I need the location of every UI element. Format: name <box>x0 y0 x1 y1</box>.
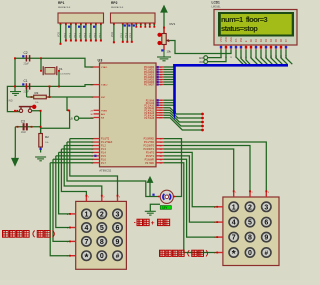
svg-text:P0.7/AD7: P0.7/AD7 <box>144 84 155 87</box>
svg-text:RS: RS <box>234 38 238 42</box>
svg-text:P3.7/RD: P3.7/RD <box>145 163 154 165</box>
svg-text:5: 5 <box>100 225 104 232</box>
svg-text:P0.6: P0.6 <box>94 32 96 37</box>
svg-text:9: 9 <box>116 239 120 246</box>
svg-text:D5: D5 <box>274 38 278 42</box>
svg-text:P3.1/TXD: P3.1/TXD <box>144 142 154 144</box>
svg-text:num=1 floor=3: num=1 floor=3 <box>221 15 267 24</box>
svg-text:P0.3: P0.3 <box>79 32 81 37</box>
svg-text:10k: 10k <box>167 50 172 54</box>
svg-text:PSEN: PSEN <box>101 110 107 112</box>
svg-text:10uF: 10uF <box>21 131 27 134</box>
svg-text:VEE: VEE <box>229 37 233 42</box>
svg-text:LM016L: LM016L <box>212 5 222 8</box>
svg-text:GND: GND <box>7 98 13 102</box>
svg-text:E: E <box>244 40 248 42</box>
svg-text:6: 6 <box>264 220 268 227</box>
svg-text:#: # <box>265 250 269 257</box>
svg-text:22pF: 22pF <box>24 91 30 94</box>
svg-text:status=stop: status=stop <box>221 24 258 33</box>
svg-text:P1.7: P1.7 <box>101 163 106 165</box>
svg-text:9: 9 <box>264 235 268 242</box>
svg-text:0: 0 <box>100 253 104 260</box>
svg-text:12V: 12V <box>162 206 167 210</box>
svg-text:D1: D1 <box>254 38 258 42</box>
svg-text:D7: D7 <box>284 38 288 42</box>
svg-text:P0.1: P0.1 <box>69 32 71 37</box>
svg-text:GND: GND <box>199 58 204 60</box>
svg-text:3: 3 <box>116 211 120 218</box>
svg-text:P3.5/T1: P3.5/T1 <box>146 156 155 158</box>
svg-text:R3: R3 <box>35 91 39 95</box>
svg-text:P3.0/RXD: P3.0/RXD <box>144 139 155 141</box>
svg-text:2: 2 <box>100 211 104 218</box>
svg-text:8: 8 <box>100 239 104 246</box>
svg-text:RST: RST <box>101 97 106 99</box>
svg-text:VSS: VSS <box>219 37 223 42</box>
svg-text:RW: RW <box>239 37 243 42</box>
svg-text:P0.4: P0.4 <box>84 32 86 37</box>
svg-text:VDD: VDD <box>111 32 114 37</box>
svg-text:AT89C52: AT89C52 <box>99 169 111 173</box>
svg-text:XTAL2: XTAL2 <box>101 84 108 87</box>
svg-text:P1.0/T2: P1.0/T2 <box>101 139 110 141</box>
svg-text:2: 2 <box>248 204 252 211</box>
svg-text:P2.1: P2.1 <box>126 32 128 37</box>
svg-text:RP1: RP1 <box>58 1 65 5</box>
svg-text:D4: D4 <box>269 38 273 42</box>
svg-text:#: # <box>116 253 120 260</box>
svg-text:4: 4 <box>232 220 236 227</box>
svg-text:P2.7/A15: P2.7/A15 <box>144 117 154 120</box>
svg-text:4: 4 <box>84 225 88 232</box>
svg-text:P0.7: P0.7 <box>99 32 101 37</box>
svg-text:C1: C1 <box>24 79 28 83</box>
svg-text:VDD: VDD <box>224 37 228 43</box>
svg-text:P2.2: P2.2 <box>130 32 132 37</box>
svg-text:P0.5: P0.5 <box>89 32 91 37</box>
svg-text:R2: R2 <box>45 135 49 139</box>
svg-text:D3: D3 <box>264 38 268 42</box>
svg-text:P1.5: P1.5 <box>101 156 106 158</box>
svg-text:D6: D6 <box>279 38 283 42</box>
svg-text:8: 8 <box>248 235 252 242</box>
svg-text:0: 0 <box>248 250 252 257</box>
svg-text:P3.4/T0: P3.4/T0 <box>146 153 155 155</box>
svg-text:C2: C2 <box>24 51 28 55</box>
svg-text:P3.6/WR: P3.6/WR <box>145 159 155 161</box>
svg-text:VDD: VDD <box>57 32 60 37</box>
svg-text:RESPACK-8: RESPACK-8 <box>58 6 71 9</box>
svg-text:P2.0: P2.0 <box>121 32 123 37</box>
svg-text:P1.2: P1.2 <box>101 146 106 148</box>
svg-text:XTAL1: XTAL1 <box>101 66 108 69</box>
svg-text:11.0592MHz: 11.0592MHz <box>59 73 71 75</box>
svg-text:P0.0: P0.0 <box>64 32 66 37</box>
svg-text:P1.6: P1.6 <box>101 159 106 161</box>
svg-text:*: * <box>84 252 88 263</box>
svg-text:RESPACK-8: RESPACK-8 <box>111 6 124 9</box>
svg-text:LB: LB <box>70 116 73 120</box>
svg-text:-: - <box>134 221 136 227</box>
svg-text:U3: U3 <box>98 59 103 63</box>
svg-text:P1.3: P1.3 <box>101 149 106 151</box>
svg-text:5: 5 <box>248 220 252 227</box>
svg-text:P3.3/INT1: P3.3/INT1 <box>144 149 155 151</box>
svg-text:RV1: RV1 <box>170 22 176 26</box>
svg-text:C3: C3 <box>21 120 25 124</box>
svg-text:P0.2: P0.2 <box>74 32 76 37</box>
svg-text:3: 3 <box>264 204 268 211</box>
svg-text:D2: D2 <box>259 38 263 42</box>
svg-text:22pF: 22pF <box>24 63 30 66</box>
svg-text:P1.4: P1.4 <box>101 153 106 155</box>
svg-text:1: 1 <box>232 204 236 211</box>
svg-text:7: 7 <box>84 239 88 246</box>
svg-text:P3.2/INT0: P3.2/INT0 <box>144 146 155 148</box>
svg-text:6: 6 <box>116 225 120 232</box>
svg-text:D0: D0 <box>249 38 253 42</box>
svg-text:1: 1 <box>84 211 88 218</box>
svg-text:+: + <box>151 220 155 227</box>
svg-text:ALE: ALE <box>101 113 106 116</box>
svg-text:RP2: RP2 <box>111 1 118 5</box>
svg-text:*: * <box>232 249 236 260</box>
svg-text:7: 7 <box>232 235 236 242</box>
svg-text:VDD: VDD <box>199 62 204 64</box>
svg-text:P1.1/T2EX: P1.1/T2EX <box>101 142 113 144</box>
svg-text:LCD1: LCD1 <box>212 1 221 5</box>
